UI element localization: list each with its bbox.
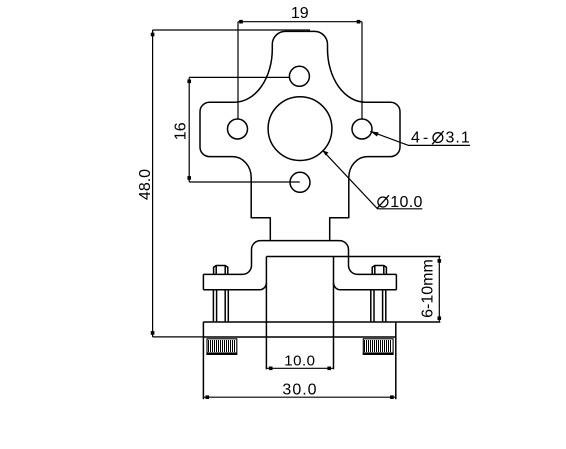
right screw cap <box>372 266 386 275</box>
base plate left edge + 30.0 extension line <box>202 322 204 399</box>
dim 6-10mm line <box>438 257 440 323</box>
arrowhead dia10.0 <box>323 150 329 155</box>
dim dots 16 <box>187 80 191 84</box>
left screw cap inner lines <box>216 266 225 275</box>
dim 16 bottom extension <box>189 181 300 183</box>
svg-text:4-: 4- <box>411 130 431 147</box>
saddle clamp right side and bottom <box>334 274 397 289</box>
left screw shaft <box>213 290 228 322</box>
diameter symbol of dia10.0 <box>377 195 389 208</box>
svg-text:30.0: 30.0 <box>282 382 317 399</box>
leader for 4-dia3.1 <box>370 131 470 145</box>
dim 19 right extension <box>361 22 363 120</box>
boom block left edge + 10.0 extension line <box>265 257 267 370</box>
dim dots 6-10mm <box>438 259 442 263</box>
boom block right edge + 10.0 extension line <box>333 257 335 370</box>
dim 30.0 line <box>203 396 395 398</box>
saddle clamp top profile <box>203 241 396 275</box>
saddle clamp left side and bottom <box>203 274 266 289</box>
dim dots 30.0 <box>206 395 210 399</box>
dim 19 line <box>238 21 362 23</box>
bottom mounting hole <box>290 172 310 192</box>
arrowhead 4-dia3.1 <box>370 131 378 136</box>
svg-text:10.0: 10.0 <box>284 353 315 370</box>
dim 16 line <box>188 77 190 182</box>
dim 48.0 line <box>152 30 154 337</box>
leader for dia10.0 <box>323 150 423 209</box>
svg-text:3.1: 3.1 <box>446 130 471 147</box>
svg-text:10.0: 10.0 <box>390 194 422 211</box>
right knurled nut <box>363 339 393 355</box>
left knurled nut <box>206 339 236 355</box>
top mounting hole <box>289 66 309 86</box>
dim 16 top extension <box>189 76 289 78</box>
dim 19 left extension <box>237 22 239 120</box>
right mounting hole <box>352 119 372 139</box>
svg-text:16: 16 <box>173 122 190 140</box>
right screw shaft <box>371 290 386 322</box>
base plate top edge + 6-10mm bottom extension line <box>203 321 440 323</box>
left screw cap <box>214 266 228 275</box>
svg-text:19: 19 <box>291 5 309 22</box>
motor mount cross plate outline <box>200 31 400 240</box>
boom block top edge + 6-10mm top extension line <box>266 256 440 258</box>
dim dots 19 <box>239 20 243 24</box>
dim 48.0 top extension <box>153 29 310 31</box>
dim dots 48.0 <box>151 33 155 37</box>
center shaft hole <box>268 97 332 161</box>
base plate bottom edge <box>203 336 395 338</box>
base plate right edge + 30.0 extension line <box>395 322 397 399</box>
dim 10.0 line <box>266 367 333 369</box>
svg-text:6-10mm: 6-10mm <box>420 259 437 318</box>
svg-text:48.0: 48.0 <box>137 169 154 200</box>
left mounting hole <box>228 119 248 139</box>
dim 48.0 bottom extension <box>153 336 204 338</box>
dim dots 10.0 <box>269 367 273 371</box>
diameter symbol of 4-dia3.1 <box>432 131 443 144</box>
right screw cap inner lines <box>375 266 384 275</box>
